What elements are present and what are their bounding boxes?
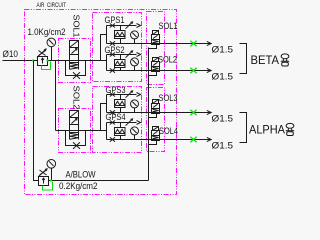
pressure switch PS4 contacts	[115, 129, 126, 133]
bleed X on GPS2 output line	[110, 68, 115, 72]
pressure switch PS1 contacts	[115, 32, 126, 36]
svg-text:Ø1.5: Ø1.5	[212, 45, 234, 56]
bracket BETA group	[240, 44, 247, 74]
bracket ALPHA group	[240, 113, 247, 143]
svg-text:SOL2: SOL2	[72, 86, 81, 111]
wire A/BLOW riser to small valves	[148, 48, 150, 181]
enclosure box SOL1 (main valve)	[59, 39, 91, 83]
solenoid pilot box SOL1	[153, 31, 159, 35]
wire GPS4 sensing line	[107, 122, 137, 124]
wire A/BLOW output line	[49, 180, 149, 182]
wire GPS3 sensing line	[107, 94, 137, 96]
wire GPS3 right leg	[120, 95, 122, 113]
outer enclosure dashed box	[25, 10, 177, 195]
wire GPS2 left leg	[106, 55, 108, 71]
nozzle marker X3 (green)	[190, 110, 196, 115]
pressure gauge GPS3	[131, 100, 139, 108]
arrowhead GPS2 sensing nozzle	[137, 53, 141, 57]
svg-text:SOL1: SOL1	[72, 15, 81, 39]
svg-text:1.0Kg/cm2: 1.0Kg/cm2	[28, 27, 66, 37]
throttle X on main SOL2 exhaust	[73, 142, 80, 149]
svg-text:BETA: BETA	[251, 53, 280, 67]
nozzle marker X1 (green)	[190, 41, 196, 46]
wire GPS3 left leg	[106, 95, 108, 113]
svg-text:SOL2: SOL2	[158, 55, 177, 65]
wire GPS1 feed riser	[101, 35, 107, 61]
GPS3 sensor unit	[106, 85, 234, 125]
wire GPS4 left leg	[106, 123, 108, 140]
solenoid pilot box of main SOL2	[70, 111, 79, 118]
node A/BLOW gauge junction	[50, 180, 52, 182]
nozzle marker X2 (green)	[190, 68, 196, 73]
svg-text:0.2Kg/cm2: 0.2Kg/cm2	[59, 181, 98, 191]
valve SOL3 flow arrow	[153, 104, 158, 107]
svg-text:A/BLOW: A/BLOW	[66, 169, 96, 180]
regulator R1 body	[38, 57, 48, 66]
wire output line 1	[107, 43, 211, 45]
wire GPS4 right leg	[120, 123, 122, 140]
wire feed elbow SOL3	[149, 114, 157, 118]
pressure gauge G2	[47, 160, 56, 169]
valve SOL4 spring	[153, 136, 159, 140]
wire exhaust loop of main SOL2	[66, 131, 86, 146]
enclosure box SOL2 (main valve)	[59, 109, 91, 153]
valve SOL1 body	[152, 35, 160, 45]
valve SOL3 spring	[153, 109, 159, 113]
enclosure box GPS3/GPS4	[93, 87, 142, 153]
needle valve slash arrow GPS4	[126, 119, 133, 126]
valve SOL4 flow arrow	[153, 131, 158, 134]
wire GPS1 right leg	[120, 26, 122, 44]
wire highlight elbow under regulator R1	[42, 62, 51, 70]
svg-text:GPS4: GPS4	[106, 112, 126, 122]
wire GPS3 feed riser	[101, 104, 107, 131]
arrowhead GPS3 sensing nozzle	[137, 93, 141, 97]
wire lower distribution line	[56, 130, 107, 132]
svg-text:Ø1.5: Ø1.5	[212, 141, 234, 152]
pressure switch PS1 box	[115, 31, 126, 39]
orifice X on GPS4 sensing line	[110, 121, 115, 125]
wire GPS2 right leg	[120, 55, 122, 71]
valve SOL4 body	[152, 131, 160, 141]
regulator R1 internal arrow	[41, 58, 44, 64]
valve SOL2 spring	[153, 67, 159, 71]
arrowhead output 4	[207, 137, 211, 141]
wire exhaust loop of main SOL1	[66, 61, 86, 76]
svg-text:SOL3: SOL3	[159, 93, 178, 103]
gauge stem GPS2	[134, 66, 136, 71]
needle valve slash arrow GPS2	[126, 51, 133, 58]
arrowhead output 1	[207, 41, 211, 45]
gauge needle GPS3	[132, 102, 136, 106]
valve SOL4 (small solenoid valve)	[149, 126, 179, 144]
orifice X on GPS2 sensing line	[110, 53, 115, 57]
orifice X on GPS3 sensing line	[110, 93, 115, 97]
wire feed elbow SOL2	[149, 72, 157, 76]
enclosure box small SOL1/SOL2	[147, 12, 165, 85]
pressure gauge GPS2	[131, 58, 139, 66]
orifice X on GPS1 sensing line	[110, 24, 115, 28]
regulator R2 relief X symbol	[40, 170, 47, 175]
enclosure box GPS1/GPS2	[93, 13, 142, 82]
valve SOL3 body	[152, 104, 160, 114]
solenoid pilot box SOL4	[153, 127, 159, 131]
valve SOL2 body	[152, 62, 160, 72]
needle valve slash arrow GPS1	[126, 22, 133, 29]
gauge needle GPS4	[132, 129, 136, 133]
svg-text:ALPHA: ALPHA	[249, 123, 285, 137]
svg-text:Ø1.5: Ø1.5	[212, 72, 234, 83]
wire feed elbow SOL4	[149, 141, 157, 145]
bleed X on GPS1 output line	[110, 41, 115, 45]
pressure gauge GPS1	[131, 31, 139, 39]
enclosure box small SOL3/SOL4	[147, 88, 165, 152]
gauge needle GPS2	[132, 60, 136, 64]
GPS1 sensor unit	[105, 15, 234, 56]
node regulator R1 outlet	[47, 60, 49, 62]
arrowhead output 2	[207, 68, 211, 72]
GPS4 sensor unit	[106, 112, 234, 152]
pressure gauge G1	[47, 38, 56, 47]
valve main SOL1 return spring	[70, 63, 79, 70]
pressure gauge GPS4	[131, 127, 139, 135]
pressure switch PS3 box	[115, 100, 126, 108]
wire feed elbow SOL1	[149, 45, 157, 49]
regulator R2 body (A/BLOW)	[39, 177, 49, 186]
valve SOL3 (small solenoid valve)	[149, 93, 178, 118]
glyph yong (Korean) after ALPHA	[286, 123, 294, 135]
valve SOL2 flow arrow	[153, 62, 158, 65]
wire gauge G2 stem	[51, 168, 53, 180]
wire output line 2	[107, 70, 211, 72]
svg-text:GPS3: GPS3	[106, 85, 126, 95]
gauge needle GPS1	[132, 33, 136, 37]
wire output line 3	[107, 112, 211, 114]
svg-text:AIR CIRCUIT: AIR CIRCUIT	[37, 2, 67, 9]
arrowhead GPS4 sensing nozzle	[137, 121, 141, 125]
solenoid pilot box SOL2	[153, 58, 159, 62]
needle valve slash arrow GPS3	[126, 91, 133, 98]
wire highlight elbow under regulator R2	[43, 182, 53, 191]
pressure switch PS2 contacts	[115, 61, 126, 65]
pressure switch PS3 contacts	[115, 101, 126, 105]
throttle X on main SOL1 exhaust	[73, 72, 80, 79]
regulator R1 relief X symbol	[39, 51, 46, 56]
wire output line 4	[107, 139, 211, 141]
valve main SOL2 return spring	[70, 133, 79, 140]
pressure switch PS2 box	[115, 60, 126, 68]
wire branch down to A/BLOW regulator	[34, 61, 39, 181]
regulator R1 adjustment arrow	[37, 49, 46, 58]
gauge stem GPS1	[134, 39, 136, 44]
svg-text:SOL4: SOL4	[159, 126, 178, 136]
regulator R2 internal arrow	[42, 178, 45, 184]
valve SOL1 spring	[153, 40, 159, 44]
arrowhead GPS1 sensing nozzle	[137, 24, 141, 28]
arrowhead output 3	[207, 110, 211, 114]
svg-text:SOL1: SOL1	[159, 21, 178, 31]
wire branch down to lower distribution line	[55, 61, 57, 131]
bleed X on GPS4 output line	[110, 137, 115, 141]
gauge G1 needle	[49, 40, 54, 45]
valve SOL2 (small solenoid valve)	[149, 55, 178, 76]
valve SOL1 (small solenoid valve)	[149, 21, 178, 49]
regulator R2 adjustment arrow	[38, 169, 47, 177]
solenoid pilot box of main SOL1	[70, 41, 79, 48]
node branch to A/BLOW	[32, 60, 34, 62]
wire main supply line	[3, 60, 107, 62]
bleed X on GPS3 output line	[110, 110, 115, 114]
wire GPS1 left leg	[106, 26, 108, 44]
wire gauge G1 stem	[51, 47, 53, 61]
glyph yong (Korean) after BETA	[281, 54, 289, 66]
pressure switch PS4 box	[115, 128, 126, 136]
valve main SOL2 body	[70, 118, 79, 133]
svg-text:Ø1.5: Ø1.5	[212, 114, 234, 125]
wire GPS1 sensing line	[107, 25, 137, 27]
wire GPS2 sensing line	[107, 54, 137, 56]
gauge stem GPS4	[134, 135, 136, 140]
gauge G2 needle	[49, 161, 54, 166]
nozzle marker X4 (green)	[190, 137, 196, 142]
svg-text:Ø10: Ø10	[3, 49, 19, 59]
valve SOL1 flow arrow	[153, 35, 158, 38]
solenoid pilot box SOL3	[153, 100, 159, 104]
valve main SOL1 body	[70, 48, 79, 63]
gauge stem GPS3	[134, 108, 136, 113]
GPS2 sensor unit	[105, 45, 234, 83]
